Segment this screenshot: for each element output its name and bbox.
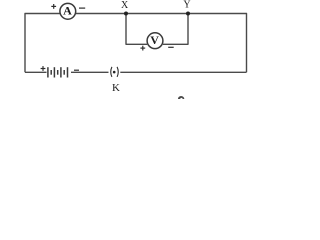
- wire X branch down to voltmeter: [126, 14, 147, 45]
- key K left parenthesis: [111, 67, 112, 77]
- battery plus label: [41, 66, 46, 71]
- ammeter A1 circle: [60, 3, 76, 19]
- ammeter minus label: [79, 7, 85, 9]
- wire top: ammeter through X and Y to top-right corner, down right side: [76, 14, 247, 73]
- wire bottom left: corner to battery: [25, 71, 47, 73]
- voltmeter plus label: [140, 46, 145, 51]
- wire battery to key: [71, 71, 109, 73]
- svg-text:Y: Y: [183, 0, 190, 11]
- key K right parenthesis: [117, 67, 118, 77]
- battery minus label: [74, 69, 79, 71]
- wire bottom right: key to bottom-right corner: [120, 71, 246, 73]
- stray cropped glyph at bottom edge: [178, 96, 184, 99]
- node X dot: [124, 12, 128, 16]
- voltmeter minus label: [168, 46, 174, 48]
- key K contact dot: [113, 71, 116, 74]
- svg-text:K: K: [112, 82, 120, 94]
- wire left side: bottom-left corner up and right to ammeter: [25, 14, 60, 73]
- ammeter plus label: [51, 4, 56, 9]
- voltmeter V1 circle: [147, 33, 163, 49]
- svg-text:A: A: [63, 3, 72, 17]
- svg-text:X: X: [121, 0, 129, 11]
- node Y dot: [186, 12, 190, 16]
- svg-text:V: V: [150, 33, 159, 47]
- battery cells: [48, 67, 68, 77]
- wire voltmeter to Y branch up: [163, 14, 188, 45]
